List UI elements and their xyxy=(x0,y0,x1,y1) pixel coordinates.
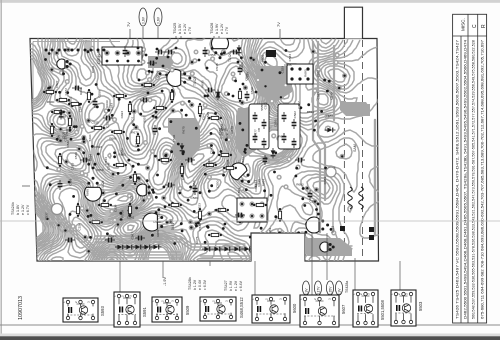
wire thick vertical right xyxy=(313,42,320,232)
svg-text:C525: C525 xyxy=(206,112,210,120)
svg-text:560,548,537,559,532-536,565-56: 560,548,537,559,532-536,565-563,531-578,… xyxy=(472,40,476,319)
transistor small mid xyxy=(137,184,155,196)
caps top center xyxy=(150,61,152,66)
svg-text:TS426: TS426 xyxy=(210,23,214,34)
diode row bottom center xyxy=(202,247,213,252)
svg-text:C: C xyxy=(472,24,478,28)
svg-text:-1.9V: -1.9V xyxy=(163,276,167,286)
pinout box 5509 xyxy=(152,297,182,322)
page left edge line xyxy=(0,0,2,340)
svg-text:S468,S512: S468,S512 xyxy=(239,297,244,318)
svg-text:TS427: TS427 xyxy=(224,280,228,291)
svg-text:TS424b: TS424b xyxy=(11,202,15,215)
svg-text:R709: R709 xyxy=(91,66,95,74)
svg-text:R687: R687 xyxy=(108,235,116,239)
svg-text:C533: C533 xyxy=(110,103,114,111)
svg-text:C556: C556 xyxy=(68,178,72,186)
wire bundle bottom xyxy=(200,246,352,256)
svg-text:C527: C527 xyxy=(55,80,59,88)
diode D466 xyxy=(59,109,64,120)
svg-text:TS426: TS426 xyxy=(228,52,232,62)
svg-text:C550: C550 xyxy=(216,180,220,188)
svg-text:C577: C577 xyxy=(310,200,318,204)
IF transformer S501 xyxy=(249,104,269,149)
svg-text:e 1.2V: e 1.2V xyxy=(183,23,187,34)
transistor 5495 xyxy=(306,217,329,233)
svg-text:C555: C555 xyxy=(91,121,99,125)
svg-text:C572: C572 xyxy=(64,88,68,96)
svg-text:TS428b: TS428b xyxy=(188,277,192,290)
parts table xyxy=(453,14,487,323)
svg-text:b 1.5V: b 1.5V xyxy=(178,23,182,34)
svg-text:C537: C537 xyxy=(297,101,301,109)
svg-text:10907013: 10907013 xyxy=(18,296,24,320)
svg-text:C526: C526 xyxy=(156,70,160,78)
dial lamp strip SAM xyxy=(344,7,362,38)
svg-text:R695: R695 xyxy=(200,80,204,88)
svg-text:R697: R697 xyxy=(214,208,222,212)
solder pads xyxy=(77,146,82,151)
svg-text:C545: C545 xyxy=(215,63,219,71)
svg-text:R677: R677 xyxy=(254,129,258,137)
component 5600 dark xyxy=(266,50,276,57)
svg-text:5501,5508: 5501,5508 xyxy=(380,300,385,320)
pinout box 5607 xyxy=(300,295,339,327)
pad center dots xyxy=(78,148,80,150)
pinout box 5600 xyxy=(252,295,290,323)
pinout box S468,S512 xyxy=(200,297,236,321)
svg-text:R675: R675 xyxy=(182,126,186,134)
svg-text:C537: C537 xyxy=(44,212,48,220)
wire right edge bar xyxy=(374,120,376,235)
svg-text:C521: C521 xyxy=(157,212,161,220)
oval 0.6V xyxy=(139,8,147,26)
svg-text:C567: C567 xyxy=(131,232,135,240)
svg-text:C536: C536 xyxy=(207,159,211,167)
svg-text:7V: 7V xyxy=(126,22,131,27)
svg-text:TS426 TS425 D463,5497 VC: TS426 TS425 D463,5497 VC 5593,5508,5509,… xyxy=(456,40,460,319)
transistor small bottom xyxy=(320,242,335,252)
svg-text:R693: R693 xyxy=(120,111,124,119)
svg-text:C523: C523 xyxy=(198,203,202,211)
svg-text:C524: C524 xyxy=(77,223,81,231)
copper pour center xyxy=(168,118,200,160)
svg-text:5495: 5495 xyxy=(331,226,335,233)
svg-text:e 1.2V: e 1.2V xyxy=(234,280,238,291)
svg-text:C551: C551 xyxy=(69,96,73,104)
svg-text:5557: 5557 xyxy=(143,115,147,122)
svg-text:R691: R691 xyxy=(278,135,286,139)
diode row D470-D473 xyxy=(115,245,126,250)
svg-text:C521: C521 xyxy=(237,188,241,196)
svg-text:C541: C541 xyxy=(127,216,135,220)
IF transformer S508 xyxy=(278,104,300,149)
svg-text:R683: R683 xyxy=(296,183,304,187)
svg-text:C547: C547 xyxy=(317,92,321,100)
svg-text:C536: C536 xyxy=(57,135,61,143)
board inner edge line xyxy=(33,42,120,111)
transistor TS424 xyxy=(85,177,102,201)
svg-text:C530: C530 xyxy=(250,87,254,95)
svg-text:C538: C538 xyxy=(113,204,117,212)
svg-text:e 0.4V: e 0.4V xyxy=(198,279,202,290)
copper pour mid right xyxy=(236,108,256,158)
svg-text:D466b: D466b xyxy=(240,62,244,71)
pinout box S591 xyxy=(114,292,140,327)
svg-text:0,6V: 0,6V xyxy=(142,16,146,24)
svg-text:5509: 5509 xyxy=(185,305,190,315)
copper pour right L xyxy=(340,102,370,116)
svg-text:C544: C544 xyxy=(78,105,82,113)
svg-text:5600: 5600 xyxy=(261,55,265,62)
svg-text:R686: R686 xyxy=(109,136,117,140)
svg-text:7V: 7V xyxy=(276,22,281,27)
diode D462 xyxy=(180,143,185,154)
svg-text:5607: 5607 xyxy=(341,304,346,314)
wire bundle left diagonal xyxy=(37,192,180,252)
mounting hole right xyxy=(326,167,336,177)
svg-text:C529: C529 xyxy=(241,157,245,165)
pinout box S593 xyxy=(63,298,98,322)
copper pour S498 xyxy=(256,66,292,102)
svg-text:C543: C543 xyxy=(288,54,292,62)
svg-text:C529: C529 xyxy=(280,66,284,74)
svg-text:R696: R696 xyxy=(79,87,83,95)
solder joints xyxy=(58,91,61,94)
svg-text:R707: R707 xyxy=(131,117,135,125)
connector CONN.5 xyxy=(102,47,142,65)
coil L2 xyxy=(359,187,364,209)
svg-text:1.9V: 1.9V xyxy=(338,288,342,295)
svg-text:C520: C520 xyxy=(105,120,109,128)
wire bundle bottom band xyxy=(95,236,245,244)
svg-text:5600: 5600 xyxy=(292,303,297,313)
svg-text:5494: 5494 xyxy=(88,134,92,141)
fold line xyxy=(0,220,500,222)
svg-text:TS428a: TS428a xyxy=(345,281,349,293)
svg-text:C546: C546 xyxy=(172,135,176,143)
svg-text:C558: C558 xyxy=(98,90,102,98)
top edge pad pairs xyxy=(45,49,48,52)
svg-text:C531: C531 xyxy=(61,67,65,75)
svg-text:1.35V: 1.35V xyxy=(329,286,333,295)
svg-text:R682: R682 xyxy=(119,153,127,157)
svg-text:c 7V: c 7V xyxy=(225,26,229,34)
mounting hole left xyxy=(52,204,63,215)
transistor TS426 xyxy=(212,35,229,59)
page top scan band xyxy=(0,0,500,3)
svg-text:C553: C553 xyxy=(71,163,75,171)
svg-text:c 6.4V: c 6.4V xyxy=(239,280,243,291)
pointer lines top xyxy=(130,27,280,38)
svg-text:R690: R690 xyxy=(47,100,55,104)
svg-text:C562: C562 xyxy=(293,111,297,119)
svg-text:C541: C541 xyxy=(202,112,206,120)
bottom scan band xyxy=(0,334,500,340)
svg-text:R686: R686 xyxy=(326,114,334,118)
component 6-pad S491 xyxy=(287,64,313,84)
svg-text:5491: 5491 xyxy=(171,223,175,230)
transistor TS425 xyxy=(167,70,191,87)
mount pads xyxy=(340,226,345,231)
copper pour bottom right xyxy=(300,238,352,256)
svg-text:5503: 5503 xyxy=(418,301,423,311)
svg-text:C540: C540 xyxy=(209,146,213,154)
capacitors group xyxy=(75,86,77,91)
svg-text:c 7V: c 7V xyxy=(188,26,192,34)
svg-text:b 1.2V: b 1.2V xyxy=(193,279,197,290)
svg-text:TS424: TS424 xyxy=(101,180,105,190)
coil L1 xyxy=(348,187,353,209)
svg-text:TS425: TS425 xyxy=(193,76,197,86)
svg-text:C528: C528 xyxy=(226,159,230,167)
frame bottom line xyxy=(0,324,500,326)
svg-text:R693: R693 xyxy=(95,145,103,149)
svg-text:R: R xyxy=(481,24,487,28)
svg-text:C532: C532 xyxy=(263,102,267,110)
svg-text:b 1.9V: b 1.9V xyxy=(229,280,233,291)
svg-text:b 1.9V: b 1.9V xyxy=(215,23,219,34)
svg-text:R685: R685 xyxy=(85,189,89,197)
svg-text:c 6.3V: c 6.3V xyxy=(203,279,207,290)
svg-text:C554: C554 xyxy=(192,180,196,188)
svg-text:C538: C538 xyxy=(198,223,202,231)
svg-text:C526: C526 xyxy=(74,152,78,160)
svg-text:TS425: TS425 xyxy=(173,23,177,34)
svg-text:C558: C558 xyxy=(208,53,216,57)
svg-text:S591: S591 xyxy=(142,307,147,317)
resistors group xyxy=(46,90,54,93)
svg-text:C557: C557 xyxy=(316,70,320,78)
svg-text:R688: R688 xyxy=(59,115,67,119)
transistor 5493 xyxy=(226,159,255,188)
svg-text:c 6.7V: c 6.7V xyxy=(26,204,30,215)
svg-text:S593: S593 xyxy=(100,306,105,316)
diode D458 xyxy=(216,90,221,101)
svg-text:0,6V: 0,6V xyxy=(157,16,161,24)
svg-text:675-680,711 694-699 682 708: 675-680,711 694-699 682 708-710 684,693,… xyxy=(480,40,484,319)
diode D461 xyxy=(325,128,336,133)
extra parts top center xyxy=(137,47,140,50)
copper pour top small xyxy=(148,56,174,68)
pinout box 5501,5508 xyxy=(353,290,378,327)
svg-text:C523: C523 xyxy=(245,72,249,80)
svg-text:R699: R699 xyxy=(105,100,109,108)
transistor 5491 xyxy=(143,213,169,231)
pointer lines bottom xyxy=(120,233,400,297)
svg-text:R692: R692 xyxy=(307,110,315,114)
bottom ovals xyxy=(302,281,309,295)
svg-text:R681: R681 xyxy=(156,229,160,237)
svg-text:R675: R675 xyxy=(195,236,199,244)
svg-text:R708: R708 xyxy=(121,210,125,218)
svg-text:R684: R684 xyxy=(261,179,265,187)
svg-text:R678: R678 xyxy=(230,126,234,134)
svg-text:D462,5500 5501,5498,5494,D4: D462,5500 5501,5498,5494,D466,D468,D461,… xyxy=(463,40,467,319)
svg-text:R694: R694 xyxy=(89,154,93,162)
svg-text:R676: R676 xyxy=(131,131,139,135)
diode D459 xyxy=(237,45,242,56)
svg-text:0.17V: 0.17V xyxy=(317,286,321,295)
svg-text:R698: R698 xyxy=(257,179,261,187)
svg-text:R683: R683 xyxy=(304,69,308,77)
wire copper traces xyxy=(30,210,43,240)
svg-text:R689: R689 xyxy=(323,177,327,185)
svg-text:C559: C559 xyxy=(274,119,278,127)
svg-text:e 1.2V: e 1.2V xyxy=(220,23,224,34)
transistor small TS423 xyxy=(57,59,72,69)
svg-text:C522: C522 xyxy=(129,196,133,204)
svg-text:CONN.5: CONN.5 xyxy=(97,51,101,64)
svg-text:MISC.: MISC. xyxy=(461,18,466,31)
oval 1.9V xyxy=(154,8,162,26)
svg-text:e 1.2V: e 1.2V xyxy=(21,204,25,215)
svg-text:R679: R679 xyxy=(225,133,229,141)
svg-text:C548: C548 xyxy=(106,162,110,170)
svg-text:C549: C549 xyxy=(134,139,138,147)
svg-text:C557: C557 xyxy=(220,123,224,131)
svg-text:C565: C565 xyxy=(181,172,185,180)
diode D468 xyxy=(271,148,276,159)
component 6-pad 5501 lower xyxy=(237,198,267,222)
PCB board outline xyxy=(30,39,379,262)
svg-text:C542: C542 xyxy=(66,140,70,148)
pinout box 5503 xyxy=(391,290,416,326)
svg-text:C559: C559 xyxy=(96,168,104,172)
svg-text:C566: C566 xyxy=(191,196,199,200)
svg-text:C535: C535 xyxy=(284,63,292,67)
svg-text:b 1.8V: b 1.8V xyxy=(16,204,20,215)
svg-text:1.9V: 1.9V xyxy=(305,288,309,295)
svg-text:C539: C539 xyxy=(330,92,334,100)
